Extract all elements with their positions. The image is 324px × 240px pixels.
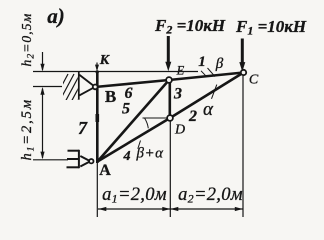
svg-text:Е: Е	[176, 64, 185, 78]
svg-text:β+α: β+α	[136, 146, 165, 162]
svg-text:В: В	[105, 87, 116, 106]
svg-text:7: 7	[78, 118, 88, 138]
svg-text:D: D	[174, 123, 185, 138]
svg-text:а): а)	[47, 4, 65, 28]
svg-text:F2 =10кН: F2 =10кН	[154, 16, 226, 37]
svg-text:α: α	[203, 99, 214, 120]
svg-text:4: 4	[123, 149, 131, 164]
svg-text:6: 6	[125, 85, 133, 102]
svg-text:F1 =10кН: F1 =10кН	[235, 17, 307, 38]
svg-text:С: С	[249, 73, 259, 88]
svg-text:5: 5	[122, 101, 130, 118]
svg-text:К: К	[99, 53, 111, 68]
svg-text:1: 1	[198, 54, 206, 70]
svg-text:β: β	[215, 56, 224, 72]
svg-text:А: А	[99, 162, 111, 179]
svg-text:2: 2	[188, 108, 197, 125]
svg-text:3: 3	[173, 86, 182, 103]
